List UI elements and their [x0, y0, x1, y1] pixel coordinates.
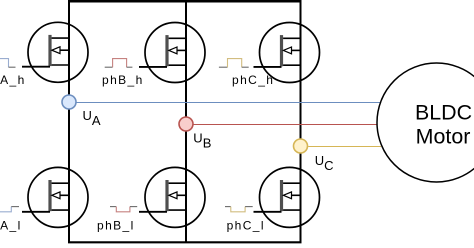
node UB junction — [179, 117, 193, 131]
gate pulse icon phB_l — [110, 207, 137, 212]
gate pulse icon phC_h — [219, 59, 249, 68]
node UC junction — [294, 139, 308, 153]
transistor Q1 phase A high-side MOSFET — [22, 22, 88, 82]
wire phase A output to motor (blue) — [76, 102, 380, 104]
svg-text:phB_l: phB_l — [97, 218, 135, 232]
gate pulse icon phC_l — [225, 207, 253, 212]
svg-text:UA: UA — [83, 108, 101, 128]
transistor Q2 phase A low-side MOSFET — [22, 167, 88, 227]
wire phase A leg — [68, 0, 70, 243]
node UA junction — [62, 95, 76, 109]
svg-text:phC_h: phC_h — [232, 73, 274, 87]
svg-text:BLDC: BLDC — [415, 100, 472, 124]
wire phase C output to motor (yellow) — [308, 146, 381, 148]
wire DC bus positive rail (top) — [68, 0, 302, 3]
wire phase C leg — [300, 0, 302, 243]
transistor Q3 phase B high-side MOSFET — [139, 23, 205, 83]
gate pulse icon phA_l — [0, 207, 19, 212]
svg-text:phA_h: phA_h — [0, 73, 26, 87]
svg-text:phC_l: phC_l — [227, 218, 265, 232]
svg-text:UB: UB — [193, 130, 211, 150]
transistor Q4 phase B low-side MOSFET — [139, 167, 205, 227]
svg-text:phA_l: phA_l — [0, 218, 22, 232]
motor M1 BLDC motor — [377, 63, 474, 182]
svg-text:Motor: Motor — [416, 124, 471, 148]
svg-text:UC: UC — [315, 153, 334, 173]
wire DC bus negative rail (bottom) — [68, 241, 302, 243]
gate pulse icon phB_h — [105, 59, 133, 68]
wire phase B leg — [185, 0, 187, 243]
svg-text:phB_h: phB_h — [102, 73, 144, 87]
gate pulse icon phA_h — [0, 59, 16, 68]
transistor Q6 phase C low-side MOSFET — [254, 167, 320, 227]
transistor Q5 phase C high-side MOSFET — [254, 23, 320, 83]
wire phase B output to motor (red) — [193, 124, 377, 126]
